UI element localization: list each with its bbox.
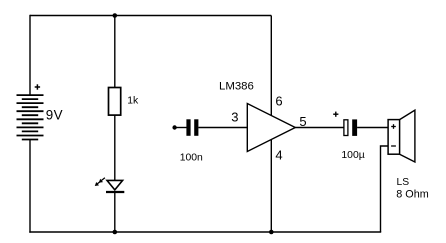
junction node top — [113, 13, 118, 18]
svg-text:8 Ohm: 8 Ohm — [396, 189, 428, 201]
C2 plus sign — [333, 112, 338, 117]
wire input to C1 — [175, 127, 187, 129]
LED arrow 1 — [99, 178, 105, 183]
input terminal node — [172, 125, 176, 129]
junction node bottom left — [113, 230, 118, 235]
wire resistor to LED — [114, 115, 116, 180]
svg-text:1k: 1k — [127, 96, 139, 107]
wire C1 to op-amp pin 3 — [198, 127, 247, 129]
wire pin 6 supply — [270, 16, 272, 116]
loudspeaker plus — [391, 124, 396, 129]
loudspeaker minus — [391, 145, 396, 147]
wire left lower — [29, 140, 31, 233]
svg-text:6: 6 — [275, 94, 282, 109]
resistor R1 1k — [109, 88, 121, 116]
svg-text:100µ: 100µ — [341, 150, 364, 161]
wire C2 to speaker — [357, 127, 388, 129]
op-amp IC1 LM386 — [247, 104, 295, 152]
LED cathode bar — [106, 191, 124, 193]
loudspeaker horn — [400, 110, 415, 162]
wire pin 4 ground — [270, 140, 272, 232]
svg-text:9V: 9V — [46, 107, 63, 122]
LED D1 — [107, 180, 123, 190]
capacitor C2 100u polarized — [344, 120, 348, 136]
svg-text:LS: LS — [397, 177, 410, 188]
svg-text:100n: 100n — [180, 153, 203, 164]
wire LED to bottom rail — [114, 192, 116, 232]
svg-text:3: 3 — [231, 110, 238, 125]
wire speaker minus — [381, 146, 389, 232]
wire top rail — [30, 15, 271, 17]
loudspeaker LS body — [388, 120, 400, 155]
capacitor C1 100n — [186, 119, 190, 136]
battery plus sign — [35, 84, 40, 89]
wire op-amp output pin 5 — [295, 127, 343, 129]
wire resistor top — [114, 16, 116, 88]
battery BT1 9V — [17, 95, 44, 139]
LED arrow 2 — [95, 181, 101, 186]
junction node bottom right — [269, 230, 274, 235]
wire left upper — [29, 15, 31, 95]
svg-text:LM386: LM386 — [219, 80, 254, 92]
svg-text:4: 4 — [275, 147, 282, 162]
wire bottom rail — [29, 231, 381, 233]
